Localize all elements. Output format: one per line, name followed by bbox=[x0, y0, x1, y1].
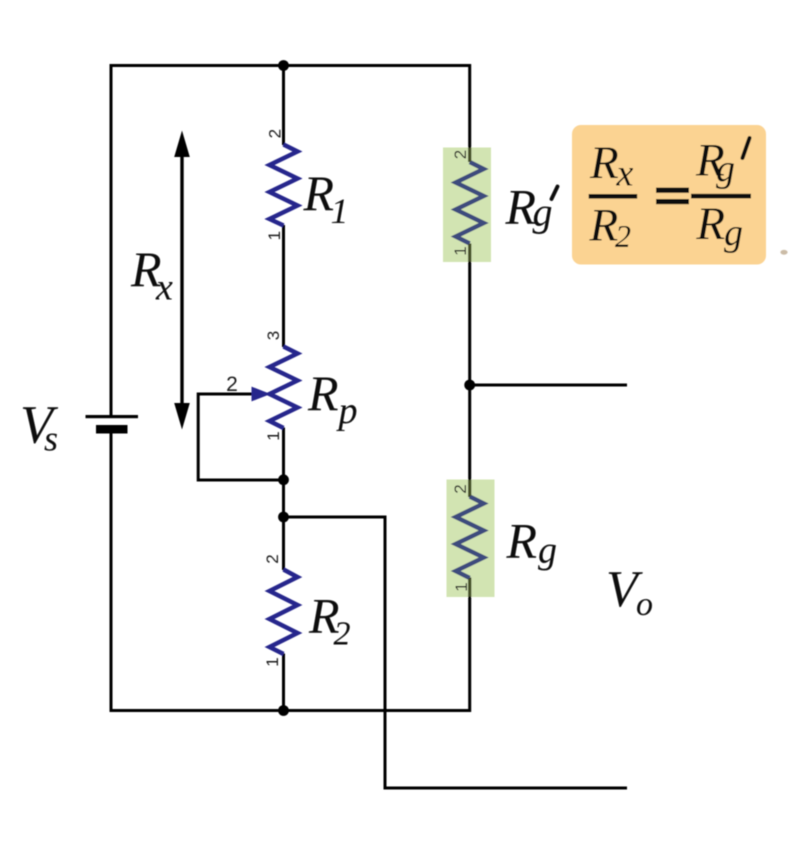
svg-text:p: p bbox=[336, 390, 358, 432]
wire left vertical lower bbox=[110, 433, 113, 712]
wire stub tint inside Rg box (bottom) bbox=[468, 579, 471, 597]
wire R2 pin1 to bottom rail bbox=[282, 654, 285, 713]
svg-text:R: R bbox=[506, 513, 538, 569]
resistor R2 zigzag bbox=[270, 570, 298, 655]
svg-text:R: R bbox=[303, 165, 335, 221]
svg-text:R: R bbox=[307, 365, 339, 421]
svg-text:3: 3 bbox=[264, 331, 283, 340]
svg-text:1: 1 bbox=[265, 231, 284, 240]
wire bottom rail bbox=[110, 709, 472, 712]
node: wiper junction dot bbox=[278, 474, 289, 485]
svg-text:1: 1 bbox=[451, 246, 470, 255]
formula box background bbox=[572, 125, 766, 265]
svg-text:R: R bbox=[589, 137, 619, 189]
wire stub tint inside Rg' box (bottom) bbox=[468, 244, 471, 262]
svg-text:x: x bbox=[616, 153, 634, 195]
svg-text:1: 1 bbox=[452, 582, 471, 591]
formula left fraction bar bbox=[589, 194, 638, 199]
node B: output junction dot bbox=[278, 512, 289, 523]
highlight box under Rg bbox=[447, 480, 495, 598]
resistor R1 zigzag bbox=[270, 145, 298, 226]
artifact dot right of formula box bbox=[780, 250, 787, 255]
formula equals sign bbox=[656, 188, 689, 193]
node: bottom junction dot bbox=[278, 705, 289, 716]
wire top rail bbox=[110, 64, 472, 67]
potentiometer Rp wiper arrowhead bbox=[252, 387, 271, 402]
wire stub tint inside Rg box (top) bbox=[468, 480, 471, 496]
svg-text:2: 2 bbox=[226, 373, 238, 396]
svg-text:1: 1 bbox=[263, 657, 282, 666]
wire wiper loop bbox=[198, 394, 285, 480]
formula right fraction bar bbox=[691, 194, 751, 199]
svg-text:1: 1 bbox=[331, 191, 349, 231]
resistor Rg zigzag bbox=[456, 497, 484, 579]
svg-text:2: 2 bbox=[265, 129, 284, 138]
svg-text:2: 2 bbox=[451, 150, 470, 159]
highlight box under Rg' bbox=[443, 148, 491, 263]
wire Rg pin1 to bottom rail bbox=[468, 578, 471, 713]
wire mid-right output tap bbox=[468, 384, 627, 387]
svg-text:o: o bbox=[636, 586, 653, 623]
svg-text:R: R bbox=[695, 198, 725, 250]
svg-text:s: s bbox=[44, 419, 58, 459]
node A: top junction dot bbox=[278, 60, 289, 71]
battery V_s bottom plate bbox=[96, 425, 128, 434]
wire stub tint inside Rg' box (top) bbox=[468, 148, 471, 162]
wire output from node B rightwards and down bbox=[282, 517, 627, 788]
wire right branch top (node to Rg' pin2) bbox=[468, 64, 471, 162]
svg-text:2: 2 bbox=[334, 616, 351, 653]
svg-text:2: 2 bbox=[615, 218, 631, 254]
resistor Rg' zigzag bbox=[456, 162, 484, 244]
wire left vertical upper bbox=[110, 64, 113, 416]
wire Rg' pin1 to Rg pin2 bbox=[468, 244, 471, 498]
svg-text:2: 2 bbox=[263, 554, 282, 563]
svg-text:R: R bbox=[505, 179, 537, 235]
wire middle branch top (node to R1 pin2) bbox=[282, 64, 285, 145]
svg-text:g: g bbox=[533, 190, 553, 235]
node: mid-right junction dot bbox=[464, 380, 475, 391]
svg-text:g: g bbox=[538, 530, 557, 572]
battery V_s top plate bbox=[86, 415, 139, 418]
svg-text:g: g bbox=[724, 212, 743, 254]
svg-text:R: R bbox=[589, 200, 619, 252]
wire R1 pin1 to Rp pin3 bbox=[282, 225, 285, 347]
svg-text:g: g bbox=[716, 148, 735, 190]
measurement arrow Rx (double-headed) bbox=[174, 131, 190, 430]
svg-text:1: 1 bbox=[264, 431, 283, 440]
svg-text:x: x bbox=[155, 267, 173, 309]
wire Rp pin1 to R2 pin2 bbox=[282, 428, 285, 571]
svg-text:2: 2 bbox=[451, 484, 470, 493]
potentiometer Rp zigzag bbox=[270, 347, 298, 429]
